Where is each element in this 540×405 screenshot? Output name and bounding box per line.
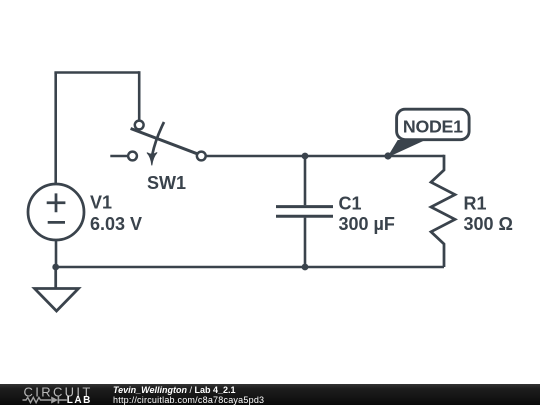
wire bottom horizontal xyxy=(56,266,444,269)
svg-text:NODE1: NODE1 xyxy=(403,117,463,137)
junction dot ground node xyxy=(52,264,59,271)
actuation arc xyxy=(152,122,164,155)
svg-text:6.03 V: 6.03 V xyxy=(90,214,142,234)
wire V1 bottom xyxy=(55,240,58,267)
switch SW1 xyxy=(110,121,205,161)
wire left vertical (V1 top to corner) xyxy=(54,73,57,185)
svg-text:300 Ω: 300 Ω xyxy=(464,214,513,234)
left throw stub wire xyxy=(110,155,128,158)
svg-text:SW1: SW1 xyxy=(147,173,186,193)
footer url line xyxy=(113,395,264,405)
ground xyxy=(35,267,79,311)
resistor R1 xyxy=(431,155,455,267)
node NODE1 callout box xyxy=(397,109,470,140)
capacitor C1 xyxy=(276,156,333,267)
footer bar xyxy=(0,384,540,405)
junction dot NODE1 xyxy=(384,152,391,159)
left throw terminal circle xyxy=(128,152,137,161)
junction dot C1 top xyxy=(302,153,309,160)
right throw terminal circle xyxy=(197,152,206,161)
svg-text:C1: C1 xyxy=(339,193,362,213)
footer title line xyxy=(113,385,236,395)
junction dot C1 bottom xyxy=(302,264,309,271)
node NODE1 callout tail xyxy=(388,141,423,157)
svg-text:R1: R1 xyxy=(464,193,487,213)
svg-text:V1: V1 xyxy=(90,193,112,213)
logo resistor-diode squiggle xyxy=(23,397,67,402)
voltage source V1 xyxy=(28,184,84,240)
svg-text:LAB: LAB xyxy=(67,395,92,405)
svg-text:300 µF: 300 µF xyxy=(339,214,395,234)
CircuitLab logo xyxy=(0,384,110,405)
pivot terminal circle xyxy=(135,121,144,130)
lever xyxy=(131,129,198,154)
logo diode xyxy=(51,397,58,404)
wire top horizontal xyxy=(54,71,139,74)
wire switch to resistor corner (mid horizontal) xyxy=(206,155,444,158)
actuation arrowhead xyxy=(147,153,157,165)
wire down to switch pivot xyxy=(138,71,141,120)
